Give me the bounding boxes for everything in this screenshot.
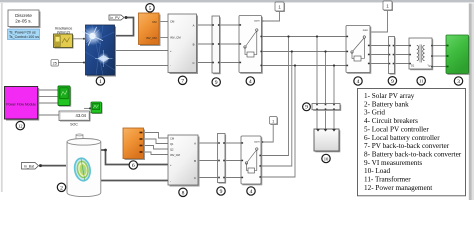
svg-text:25: 25 [53,62,57,66]
svg-text:5: 5 [149,6,152,12]
svg-text:Power Flow Module: Power Flow Module [6,102,36,106]
svg-text:SOC: SOC [70,123,78,127]
svg-text:CM: CM [170,20,175,24]
svg-text:C: C [192,61,194,65]
svg-text:B: B [194,159,196,163]
svg-text:Q2: Q2 [170,148,174,152]
svg-text:2: 2 [60,185,63,191]
svg-text:9: 9 [391,79,394,85]
svg-text:com: com [363,28,369,32]
svg-text:In_Bat: In_Bat [24,164,34,168]
svg-text:2e-05 s.: 2e-05 s. [15,19,32,24]
svg-text:6: 6 [132,163,135,169]
svg-text:11- Transformer: 11- Transformer [364,176,411,184]
svg-text:1: 1 [272,119,274,123]
svg-text:3: 3 [457,79,460,85]
svg-text:1: 1 [99,79,102,85]
svg-text:6- Local battery controller: 6- Local battery controller [364,134,440,142]
svg-text:com: com [254,139,260,143]
svg-text:1- Solar PV array: 1- Solar PV array [364,92,415,100]
svg-text:CM: CM [170,137,174,141]
svg-text:A: A [194,141,196,145]
svg-text:In_PV: In_PV [110,16,120,20]
svg-text:2- Battery bank: 2- Battery bank [364,100,409,108]
svg-text:11: 11 [419,79,424,84]
svg-text:10- Load: 10- Load [364,167,391,175]
svg-text:9: 9 [220,189,223,195]
svg-text:Ts_Control=100 us: Ts_Control=100 us [9,35,39,39]
svg-text:Ts_Power=20 us: Ts_Power=20 us [9,30,36,34]
svg-text:D1: D1 [411,64,415,68]
svg-text:43.04: 43.04 [76,113,87,118]
svg-text:10: 10 [324,156,329,161]
svg-text:4: 4 [249,79,252,85]
svg-text:4: 4 [250,189,253,195]
svg-text:7- PV back-to-back converter: 7- PV back-to-back converter [364,142,450,150]
svg-text:Discrete: Discrete [15,13,32,18]
svg-text:5- Local PV controller: 5- Local PV controller [364,125,429,133]
svg-text:4: 4 [357,79,360,85]
svg-text:CM: CM [152,20,157,24]
svg-text:12: 12 [18,123,23,128]
svg-text:-: - [170,64,171,68]
svg-text:Q1: Q1 [170,142,174,146]
svg-text:8- Battery back-to-back conver: 8- Battery back-to-back converter [364,151,462,159]
svg-text:9: 9 [215,80,218,86]
svg-text:3- Grid: 3- Grid [364,109,385,117]
svg-text:A: A [193,23,195,27]
svg-text:12- Power management: 12- Power management [364,184,432,192]
svg-text:INV_CM: INV_CM [170,153,180,157]
svg-text:B: B [193,42,195,46]
svg-text:Yg: Yg [427,64,431,68]
svg-text:8: 8 [182,190,185,196]
svg-text:9: 9 [305,105,308,111]
svg-text:com: com [254,19,260,23]
svg-text:INV_CM: INV_CM [146,36,157,40]
svg-text:-: - [170,179,171,183]
svg-text:C: C [194,176,196,180]
svg-text:4- Circuit breakers: 4- Circuit breakers [364,117,418,125]
svg-text:9- VI measurements: 9- VI measurements [364,159,422,167]
svg-text:7: 7 [181,78,184,84]
svg-text:INV_CM: INV_CM [170,36,181,40]
